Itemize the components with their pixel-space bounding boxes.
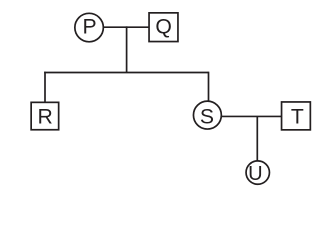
- svg-text:Q: Q: [155, 15, 171, 38]
- wire descent from couple bar to sibling bar: [126, 26, 128, 72]
- node S circle: [193, 101, 221, 129]
- wire S-T couple bar: [222, 115, 282, 117]
- node U circle: [246, 161, 269, 184]
- svg-text:S: S: [200, 105, 214, 128]
- wire sibling bar: [44, 72, 208, 74]
- wire drop to S: [208, 72, 210, 101]
- node P circle: [75, 13, 104, 42]
- wire P-Q couple bar: [103, 26, 149, 28]
- svg-text:T: T: [291, 106, 304, 129]
- node T square: [282, 102, 311, 130]
- svg-text:U: U: [248, 163, 263, 185]
- node R square: [31, 102, 59, 129]
- svg-text:R: R: [38, 105, 53, 128]
- node Q square: [149, 13, 178, 42]
- wire drop to R: [44, 72, 46, 103]
- wire drop to U: [256, 116, 258, 160]
- svg-text:P: P: [83, 15, 97, 38]
